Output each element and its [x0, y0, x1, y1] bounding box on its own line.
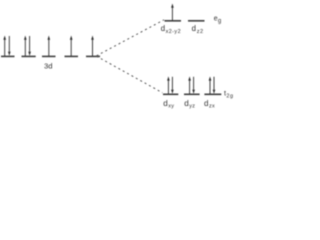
label t2g: [224, 88, 234, 99]
3d level line 2: [22, 55, 36, 57]
label dxy: [163, 99, 174, 110]
svg-text:d: d: [184, 99, 188, 108]
svg-text:2g: 2g: [226, 94, 233, 100]
svg-text:zx: zx: [209, 103, 215, 109]
electron pair arrows on level 2: [24, 36, 31, 57]
electron pair arrows on level 1: [3, 36, 10, 57]
svg-text:d: d: [163, 99, 167, 108]
3d level line 4: [65, 55, 79, 57]
label dzx: [204, 99, 215, 110]
label eg: [214, 16, 222, 25]
svg-text:d: d: [161, 24, 165, 33]
dotted correlation line to t2g: [97, 56, 163, 93]
electron pair arrows on dyz: [188, 76, 195, 94]
svg-text:x2-y2: x2-y2: [166, 29, 181, 35]
svg-text:z2: z2: [197, 29, 204, 35]
svg-text:yz: yz: [189, 103, 195, 109]
svg-text:g: g: [218, 18, 221, 24]
t2g level line dzx: [204, 93, 221, 95]
eg level line dx2-y2: [165, 20, 182, 22]
dotted correlation line to eg: [97, 20, 165, 56]
t2g level line dyz: [184, 93, 200, 95]
electron pair arrows on dxy: [167, 76, 174, 94]
3d level line 1: [1, 55, 15, 57]
3d level line 5: [86, 55, 100, 57]
label dyz: [184, 99, 195, 110]
svg-text:d: d: [204, 99, 208, 108]
label dz2: [192, 24, 204, 35]
svg-text:xy: xy: [168, 103, 174, 109]
single up electron arrow on dx2-y2: [171, 4, 174, 21]
svg-text:d: d: [192, 24, 196, 33]
3d level line 3: [42, 55, 56, 57]
t2g level line dxy: [163, 93, 178, 95]
single up electron arrow on level 4: [70, 36, 73, 57]
eg level line dz2: [188, 20, 205, 22]
single up electron arrow on level 5: [91, 36, 94, 57]
single up electron arrow on level 3: [47, 36, 50, 57]
svg-text:3d: 3d: [44, 62, 53, 71]
label dx2-y2: [161, 24, 181, 35]
electron pair arrows on dzx: [209, 76, 216, 94]
